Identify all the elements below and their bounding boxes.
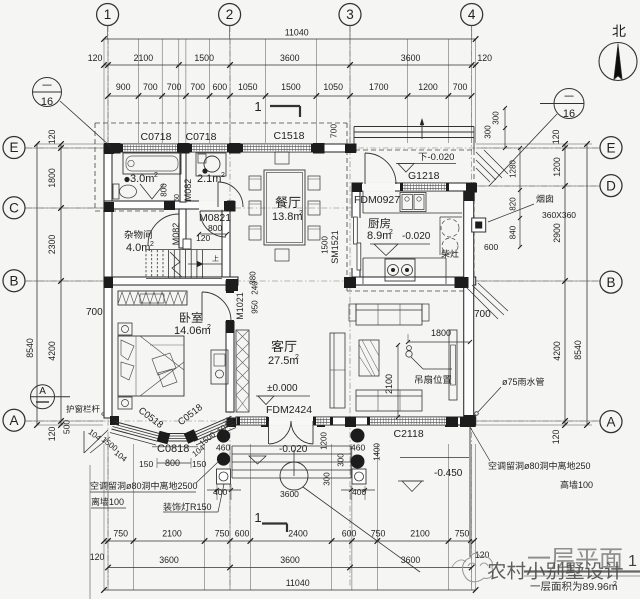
svg-text:840: 840: [509, 225, 518, 239]
svg-text:C0718: C0718: [186, 131, 217, 143]
svg-text:1500: 1500: [281, 82, 301, 92]
svg-text:100: 100: [578, 480, 593, 490]
sidelight window right of entry: [316, 417, 330, 425]
dim 380 (vertical): [249, 271, 258, 285]
svg-text:120: 120: [551, 430, 561, 445]
svg-text:C2118: C2118: [394, 428, 424, 440]
axis bubble E (right): [600, 137, 622, 159]
svg-text:700: 700: [167, 82, 182, 92]
grid axis line 2 (vertical): [229, 26, 231, 588]
svg-text:360X360: 360X360: [542, 210, 576, 220]
detail circle (porch): [280, 462, 308, 490]
svg-text:FDM2424: FDM2424: [266, 404, 312, 416]
sofa bottom (3-seat): [356, 390, 422, 411]
svg-text:300: 300: [337, 453, 346, 467]
svg-text:1: 1: [254, 99, 261, 114]
svg-text:700: 700: [453, 82, 468, 92]
axis bubble C (left): [3, 197, 25, 219]
watermark text 一层面积为89.96m2: [530, 584, 540, 587]
svg-text:1400: 1400: [373, 443, 382, 461]
label 空调留洞250 (bottom right): [489, 461, 497, 469]
svg-text:1: 1: [628, 553, 637, 570]
front porch steps: [232, 445, 351, 447]
svg-text:60: 60: [174, 194, 181, 202]
toilet: [113, 184, 119, 199]
svg-text:3600: 3600: [401, 53, 421, 63]
rear porch level text 下-0.020: [419, 153, 427, 161]
top dimension row total 11040: [104, 38, 476, 40]
svg-text:B: B: [10, 273, 19, 288]
dim 750 (terrace): [468, 539, 472, 543]
axis bubble B (right): [600, 271, 622, 293]
kitchen counter: [363, 212, 462, 214]
drawing title 一层平面: [528, 557, 550, 559]
svg-text:3600: 3600: [280, 489, 299, 499]
svg-text:400: 400: [352, 487, 366, 497]
svg-text:ø80: ø80: [126, 481, 142, 491]
label 烟囱 360X360: [536, 194, 544, 202]
svg-text:8540: 8540: [573, 340, 583, 360]
svg-text:4200: 4200: [47, 341, 57, 361]
svg-text:700: 700: [329, 124, 339, 138]
svg-text:2: 2: [226, 7, 234, 22]
detail circle 16 (right): [554, 89, 584, 119]
washroom small fixture: [198, 154, 206, 163]
svg-text:1280: 1280: [509, 160, 518, 178]
svg-text:800: 800: [160, 183, 169, 197]
grid axis line B (horizontal): [26, 280, 600, 282]
bedroom east wall: [226, 281, 234, 412]
svg-text:4.0m: 4.0m: [126, 242, 150, 254]
label M1021 (vertical): [235, 292, 245, 320]
svg-text:SM1521: SM1521: [330, 230, 340, 264]
kitchen east small dimension chain: [504, 107, 506, 148]
svg-text:2400: 2400: [288, 529, 308, 539]
svg-text:G1218: G1218: [408, 170, 440, 182]
kitchen stove: [385, 259, 415, 281]
watermark text 农村小别墅设计: [488, 562, 506, 580]
svg-text:2900: 2900: [552, 223, 562, 243]
label storage 杂物间 4.0m2: [124, 230, 133, 239]
corridor door stop: [183, 239, 191, 249]
svg-text:2300: 2300: [47, 235, 57, 255]
svg-text:900: 900: [116, 82, 131, 92]
dim 700 (window offset, top): [329, 124, 339, 138]
terrace level symbol: [398, 480, 424, 482]
ceiling fan symbol: [407, 346, 412, 351]
svg-text:120: 120: [477, 53, 492, 63]
wall C (bathroom south): [104, 201, 234, 209]
axis bubble A (left): [3, 409, 25, 431]
detail box 16 (bathrooms, dashed): [95, 122, 347, 124]
kitchen west wall: [352, 191, 360, 285]
svg-text:300: 300: [323, 472, 332, 486]
dim 60 (vertical, bath): [174, 194, 181, 202]
grid axis line 4 (vertical): [471, 26, 473, 588]
bay corner column right: [184, 429, 199, 444]
svg-text:3.0m: 3.0m: [130, 173, 154, 185]
svg-text:120: 120: [47, 130, 57, 145]
kitchen north wall: [352, 183, 476, 191]
floor drain (bath): [124, 177, 129, 182]
svg-text:3600: 3600: [159, 555, 179, 565]
axis bubble D (right): [600, 175, 622, 197]
grid axis line 1 (vertical): [107, 26, 109, 588]
svg-text:3600: 3600: [280, 555, 300, 565]
svg-text:700: 700: [474, 309, 491, 320]
dining table: [264, 170, 305, 245]
svg-text:3: 3: [346, 7, 354, 22]
svg-text:ø75: ø75: [502, 377, 518, 387]
door opening FDM0927 in kitchen north wall: [363, 182, 395, 192]
door arc FDM0927 (kitchen): [365, 153, 396, 184]
label M082 (vertical, storage door): [171, 223, 181, 246]
dining chairs: [249, 176, 261, 190]
label SM1521 (vertical): [330, 230, 340, 264]
washbasin counter: [196, 153, 226, 176]
grid axis line 3 (vertical): [349, 26, 351, 588]
living level symbol: [256, 395, 310, 397]
label M082 (vertical, bath door): [183, 179, 193, 202]
svg-text:750: 750: [371, 529, 386, 539]
west exterior wall: [104, 144, 112, 418]
svg-text:-0.020: -0.020: [402, 231, 431, 242]
svg-text:1: 1: [104, 7, 112, 22]
wardrobe (zigzag): [118, 291, 187, 305]
svg-text:1050: 1050: [238, 82, 258, 92]
bed: [118, 336, 184, 396]
svg-text:C: C: [9, 201, 19, 216]
svg-text:R150: R150: [190, 502, 212, 512]
svg-text:16: 16: [41, 96, 53, 108]
entry level symbol: [249, 456, 266, 464]
window C0718 (left): [123, 144, 177, 152]
svg-text:600: 600: [342, 529, 357, 539]
svg-text:2: 2: [613, 581, 617, 588]
svg-text:120: 120: [90, 552, 105, 562]
svg-text:4: 4: [468, 7, 476, 22]
rear porch steps: [354, 126, 474, 128]
svg-text:1200: 1200: [552, 157, 562, 177]
svg-text:820: 820: [509, 197, 518, 211]
svg-text:C0718: C0718: [141, 131, 172, 143]
svg-text:600: 600: [213, 82, 228, 92]
svg-text:750: 750: [113, 529, 128, 539]
svg-text:16: 16: [563, 108, 575, 120]
detail circle 16 (left): [33, 78, 62, 107]
svg-text:120: 120: [551, 130, 561, 145]
svg-text:A: A: [607, 414, 616, 429]
grid axis line D (horizontal): [455, 185, 600, 187]
svg-text:2100: 2100: [384, 374, 394, 394]
rear porch level symbol: [396, 163, 456, 165]
watermark logo: [463, 553, 494, 581]
svg-text:-0.020: -0.020: [428, 152, 455, 163]
window C1518: [243, 144, 311, 152]
door arc M1021 (bedroom): [202, 292, 231, 321]
svg-text:120: 120: [88, 53, 103, 63]
svg-text:FDM0927: FDM0927: [354, 194, 400, 206]
svg-text:300: 300: [492, 111, 501, 125]
svg-text:A: A: [10, 413, 19, 428]
grid axis line E (horizontal): [26, 147, 600, 149]
axis bubble E (left): [3, 137, 25, 159]
porch column right pair: [351, 429, 365, 443]
window G1218: [403, 183, 446, 191]
label bedroom 卧室 14.06m2: [180, 312, 190, 323]
svg-text:C0818: C0818: [157, 443, 189, 455]
svg-text:E: E: [607, 140, 616, 155]
svg-text:2100: 2100: [410, 529, 430, 539]
bottom dimension row total 11040: [104, 589, 476, 591]
svg-text:E: E: [10, 140, 19, 155]
bottom dimension row 3600x3: [108, 567, 472, 569]
axis bubble 2: [219, 4, 241, 26]
svg-text:2: 2: [150, 241, 154, 248]
north exterior wall: [104, 144, 356, 152]
stair east wall: [222, 209, 230, 281]
svg-text:2100: 2100: [134, 53, 154, 63]
bay corner column left: [157, 431, 170, 444]
stair up arrow 上: [212, 255, 218, 261]
door opening M0821 in wall C: [199, 200, 227, 210]
svg-text:ø80: ø80: [524, 461, 540, 471]
left inner dimension chain: [60, 144, 62, 425]
svg-text:2500: 2500: [178, 481, 198, 491]
svg-text:2: 2: [207, 324, 211, 331]
structural columns (black): [109, 143, 121, 154]
bathroom divider wall: [180, 152, 186, 202]
svg-text:1200: 1200: [320, 432, 329, 450]
svg-text:700: 700: [143, 82, 158, 92]
grid axis line A (horizontal): [26, 420, 600, 422]
dims 950 240 (vertical): [251, 300, 260, 314]
fan leader: [411, 357, 423, 369]
svg-text:750: 750: [215, 529, 230, 539]
detail box 16 (kitchen, dashed): [347, 149, 474, 151]
right dimension extension lines: [476, 143, 592, 145]
porch light left: [217, 469, 231, 484]
window C2118: [370, 417, 446, 425]
axis bubble B (left): [3, 270, 25, 292]
sofa left (2-seat): [330, 333, 345, 408]
label living 客厅 27.5m2: [271, 340, 283, 352]
label 吊扇位置: [415, 375, 422, 383]
svg-text:2: 2: [389, 229, 393, 236]
svg-text:2: 2: [221, 172, 225, 179]
svg-text:150: 150: [192, 459, 206, 469]
bottom dimension extension lines: [103, 444, 105, 590]
svg-text:M1021: M1021: [235, 292, 245, 320]
chimney 360x360: [472, 218, 486, 232]
svg-text:400: 400: [213, 487, 227, 497]
rear porch arrow (down direction): [421, 120, 423, 139]
svg-text:2: 2: [295, 354, 299, 361]
display cabinet (x-hatch): [236, 330, 249, 412]
axis bubble 1: [97, 4, 119, 26]
dim 1500 (sliding door): [321, 236, 330, 254]
dim 800 (vertical, bath): [160, 183, 169, 197]
grid axis line C (horizontal): [26, 207, 352, 209]
svg-text:13.8m: 13.8m: [272, 211, 303, 223]
bay window sill C0818: [162, 433, 192, 435]
sofa top (3-seat): [356, 304, 422, 325]
svg-text:4200: 4200: [552, 341, 562, 361]
label dining 餐厅 13.8m2: [275, 196, 287, 208]
svg-text:250: 250: [576, 461, 591, 471]
label 空调留洞2500 (bottom left): [91, 481, 99, 489]
svg-text:300: 300: [484, 125, 493, 139]
kitchen level symbol: [370, 243, 430, 245]
entry door opening FDM2424 in south wall: [268, 416, 313, 426]
svg-text:700: 700: [190, 82, 205, 92]
left dimension extension lines: [37, 143, 103, 145]
svg-text:120: 120: [196, 233, 210, 243]
shower marks: [140, 184, 164, 199]
svg-text:600: 600: [235, 529, 250, 539]
svg-text:1: 1: [254, 510, 261, 525]
east exterior wall: [464, 191, 474, 425]
right outer dimension chain 8540: [586, 144, 588, 425]
svg-text:2100: 2100: [162, 529, 182, 539]
svg-text:1800: 1800: [47, 168, 57, 188]
corner splash apron NE: [476, 152, 502, 178]
svg-text:11040: 11040: [286, 578, 310, 588]
label 护窗栏杆: [66, 405, 74, 413]
storage stub wall: [179, 209, 186, 248]
svg-text:D: D: [606, 178, 616, 193]
south wall A: [236, 417, 476, 425]
svg-text:500: 500: [62, 420, 72, 434]
porch light right: [352, 469, 366, 484]
axis bubble 3: [339, 4, 361, 26]
door arcs FDM2424 (entry double): [269, 421, 291, 444]
door arc M082 (storage): [148, 214, 179, 245]
svg-text:460: 460: [351, 443, 365, 453]
compass 北: [612, 24, 625, 37]
svg-text:3600: 3600: [280, 53, 300, 63]
svg-text:100: 100: [109, 497, 124, 507]
axis bubble 4: [461, 4, 483, 26]
bottom dimension row 750..750: [104, 540, 474, 542]
svg-text:14.06m: 14.06m: [174, 325, 211, 337]
bathtub: [123, 153, 181, 174]
door opening M1021 in bedroom east wall: [225, 291, 235, 321]
right inner dimension chain: [564, 144, 566, 425]
section mark A (circle): [31, 385, 55, 409]
dim 1800 (fan): [408, 341, 470, 343]
porch column left pair: [217, 429, 230, 442]
svg-text:27.5m: 27.5m: [268, 355, 299, 367]
nightstand bottom: [118, 397, 132, 409]
sliding door opening SM1521 in kitchen west wall: [351, 218, 361, 268]
label C0518 (right, rotated): [176, 402, 205, 428]
svg-text:M082: M082: [183, 179, 193, 202]
svg-text:380: 380: [249, 271, 258, 285]
tv cabinet: [449, 330, 457, 400]
svg-text:A: A: [39, 386, 46, 397]
svg-text:1050: 1050: [323, 82, 343, 92]
svg-text:B: B: [607, 275, 616, 290]
svg-text:460: 460: [216, 443, 230, 453]
svg-text:750: 750: [455, 529, 470, 539]
svg-text:±0.000: ±0.000: [267, 383, 298, 394]
label kitchen 厨房 8.9m2: [368, 218, 379, 228]
door arc M0821 (corridor): [200, 211, 226, 237]
svg-text:1800: 1800: [431, 328, 451, 338]
sliding door SM1521: [354, 217, 358, 244]
wall B (bedroom north): [104, 277, 238, 285]
label C0518 (left, rotated): [136, 405, 165, 431]
coffee table (glass): [359, 340, 379, 376]
door arc M082 (bath 3.0): [218, 182, 243, 207]
window C0718 (right): [192, 144, 227, 152]
svg-text:2: 2: [154, 172, 158, 179]
stairs: [145, 250, 147, 278]
svg-text:8.9m: 8.9m: [367, 230, 391, 242]
svg-text:120: 120: [47, 427, 57, 442]
top dimension extension lines: [103, 39, 105, 143]
corner splash apron SE: [466, 287, 498, 319]
kitchen sink: [400, 193, 426, 212]
dresser (bedroom east): [211, 350, 228, 384]
kitchen lower counter: [363, 257, 446, 259]
svg-text:600: 600: [484, 242, 498, 252]
label 装饰灯R150: [163, 502, 171, 510]
svg-text:-0.450: -0.450: [434, 468, 463, 479]
svg-text:1500: 1500: [321, 236, 330, 254]
svg-text:1200: 1200: [418, 82, 438, 92]
svg-text:700: 700: [86, 307, 103, 318]
bay window left diagonal C0518: [115, 422, 161, 434]
kitchen south wall: [352, 277, 476, 285]
svg-text:11040: 11040: [285, 28, 309, 38]
svg-text:C1518: C1518: [274, 130, 305, 142]
top dimension row 120/2100/1500/3600/3600/120: [104, 64, 476, 66]
svg-text:1700: 1700: [369, 82, 389, 92]
bay window right diagonal C0518: [191, 416, 232, 434]
porch dim extension lines: [216, 484, 218, 500]
wood stove 柴灶 (dashed circles): [441, 219, 459, 237]
top dimension row 900..700: [108, 95, 472, 97]
label 柴灶: [441, 249, 449, 257]
bay porch corner (SW parapet): [83, 431, 85, 453]
svg-text:150: 150: [139, 459, 153, 469]
svg-text:120: 120: [475, 550, 490, 560]
left outer dimension chain 8540: [36, 144, 38, 425]
dim 2100 (fan, vertical): [397, 345, 399, 417]
nightstand top: [118, 323, 132, 335]
title underline: [524, 570, 640, 572]
svg-text:1500: 1500: [194, 53, 214, 63]
svg-text:8540: 8540: [25, 338, 35, 358]
sidelight window left of entry: [240, 417, 266, 425]
terrace right edge: [469, 427, 471, 557]
axis bubble A (right): [600, 411, 622, 433]
svg-text:950: 950: [251, 300, 260, 314]
